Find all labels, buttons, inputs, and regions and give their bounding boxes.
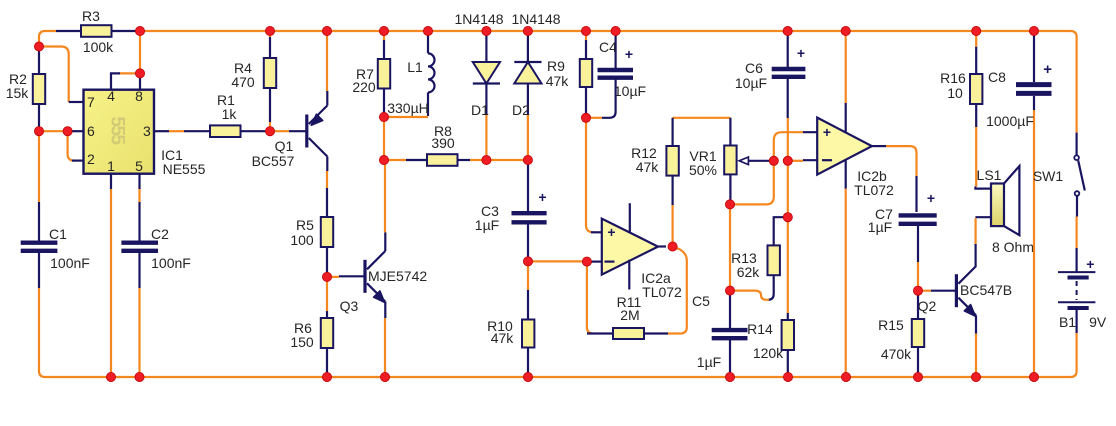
svg-text:10µF: 10µF [735, 75, 767, 91]
svg-text:TL072: TL072 [642, 284, 682, 300]
svg-text:390: 390 [431, 135, 455, 151]
svg-text:1µF: 1µF [475, 217, 499, 233]
svg-text:C8: C8 [988, 69, 1006, 85]
svg-text:100nF: 100nF [50, 255, 90, 271]
svg-text:1N4148: 1N4148 [454, 11, 503, 27]
svg-text:D1: D1 [471, 102, 489, 118]
svg-text:Q3: Q3 [340, 298, 359, 314]
svg-text:10: 10 [947, 85, 963, 101]
svg-text:47k: 47k [546, 73, 570, 89]
svg-text:1µF: 1µF [697, 354, 721, 370]
svg-text:R14: R14 [747, 321, 773, 337]
svg-text:LS1: LS1 [977, 167, 1002, 183]
svg-text:100nF: 100nF [151, 255, 191, 271]
svg-text:5: 5 [135, 158, 143, 174]
svg-text:+: + [538, 189, 546, 205]
svg-text:100: 100 [290, 232, 314, 248]
svg-text:2: 2 [87, 151, 95, 167]
svg-text:C4: C4 [599, 39, 617, 55]
svg-text:330µH: 330µH [387, 100, 429, 116]
svg-text:C6: C6 [745, 60, 763, 76]
svg-text:Q1: Q1 [275, 138, 294, 154]
svg-text:R15: R15 [878, 317, 904, 333]
svg-text:470: 470 [231, 74, 255, 90]
svg-text:BC547B: BC547B [960, 282, 1012, 298]
svg-text:8: 8 [135, 88, 143, 104]
svg-text:BC557: BC557 [252, 153, 295, 169]
svg-text:470k: 470k [881, 346, 912, 362]
svg-text:47k: 47k [636, 159, 660, 175]
svg-text:+: + [823, 124, 831, 140]
svg-text:C2: C2 [151, 226, 169, 242]
svg-text:4: 4 [107, 88, 115, 104]
svg-text:50%: 50% [689, 162, 717, 178]
svg-text:C5: C5 [692, 293, 710, 309]
svg-text:555: 555 [107, 116, 128, 145]
svg-text:1: 1 [107, 158, 115, 174]
svg-text:Q2: Q2 [918, 298, 937, 314]
svg-text:7: 7 [87, 94, 95, 110]
svg-text:R3: R3 [82, 8, 100, 24]
svg-text:120k: 120k [753, 345, 784, 361]
svg-text:220: 220 [352, 79, 376, 95]
svg-text:TL072: TL072 [854, 182, 894, 198]
svg-text:+: + [1086, 256, 1094, 272]
svg-text:+: + [607, 224, 615, 240]
svg-text:+: + [1043, 61, 1052, 78]
svg-text:+: + [625, 46, 633, 62]
svg-text:62k: 62k [737, 264, 761, 280]
svg-text:1N4148: 1N4148 [511, 11, 560, 27]
svg-text:L1: L1 [407, 59, 423, 75]
svg-text:100k: 100k [83, 39, 114, 55]
svg-text:MJE5742: MJE5742 [368, 268, 427, 284]
svg-text:2M: 2M [620, 307, 639, 323]
svg-text:150: 150 [290, 334, 314, 350]
svg-text:10µF: 10µF [614, 83, 646, 99]
svg-text:1k: 1k [222, 106, 238, 122]
svg-text:1000µF: 1000µF [986, 113, 1034, 129]
svg-text:D2: D2 [512, 102, 530, 118]
svg-text:B1: B1 [1059, 314, 1076, 330]
svg-text:+: + [797, 45, 805, 61]
svg-text:3: 3 [143, 123, 151, 139]
svg-text:R9: R9 [547, 58, 565, 74]
svg-text:+: + [927, 190, 935, 206]
svg-text:R16: R16 [940, 70, 966, 86]
svg-text:15k: 15k [6, 85, 30, 101]
svg-text:9V: 9V [1089, 314, 1107, 330]
svg-text:6: 6 [87, 123, 95, 139]
svg-text:1µF: 1µF [868, 219, 892, 235]
svg-text:47k: 47k [491, 330, 515, 346]
svg-text:R5: R5 [296, 217, 314, 233]
svg-text:C1: C1 [49, 226, 67, 242]
svg-text:8 Ohm: 8 Ohm [992, 239, 1034, 255]
svg-text:NE555: NE555 [163, 161, 206, 177]
svg-text:SW1: SW1 [1033, 168, 1064, 184]
